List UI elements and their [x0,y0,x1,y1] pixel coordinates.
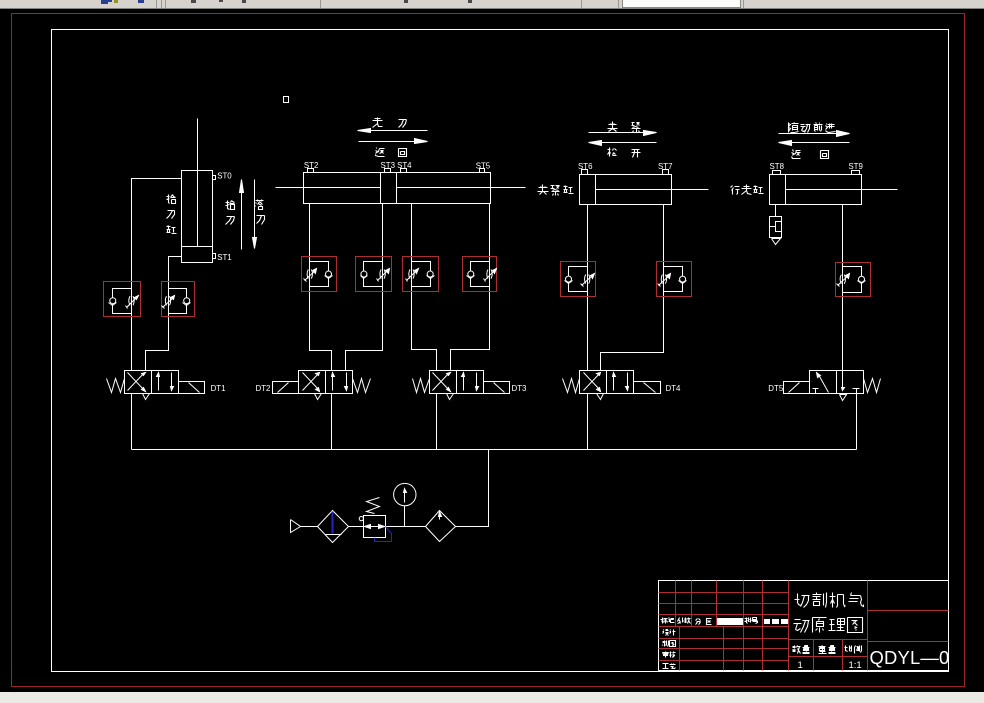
cylinder 走刀 (feed cylinder) body [304,173,491,204]
regulator vent line (blue) [375,527,392,542]
arrow 返回 (left) [781,142,850,144]
headers 数量/重量/比例 [793,646,801,654]
label 夹紧缸 [538,185,549,195]
svg-text:DT5: DT5 [768,384,784,393]
exhaust throttle/muffler block [770,217,782,238]
solenoid valve DT5 solenoid box [784,382,810,394]
limit switch marker ST9 [852,171,860,175]
wire: DT4 to manifold [587,394,589,450]
status bar sliver [0,692,984,703]
DT2 exhaust triangle [315,394,322,400]
one-way throttle valve F7 [565,267,595,292]
DT5 right square blocked port T [853,388,860,390]
solenoid valve DT4 spring [563,379,580,393]
one-way throttle valve F3 [304,262,333,287]
label 松开 [608,148,617,157]
DT2 parallel arrows [332,376,334,391]
limit switch marker ST6 [582,170,588,175]
arrow 松开 (left) [591,142,657,144]
svg-text:QDYL—0: QDYL—0 [870,647,950,668]
limit switch marker ST0 [213,176,216,180]
toolbar combo box [622,0,741,8]
svg-text:ST8: ST8 [770,162,785,171]
DT5 left square blocked port T [813,388,819,390]
svg-text:ST0: ST0 [217,172,232,181]
feed cylinder rod (right) [397,187,526,189]
travel cylinder piston [785,175,787,205]
one-way throttle valve F3 red highlight box [302,257,337,292]
filter element (blue) [332,512,334,534]
label 夹紧 [608,122,618,132]
feed cylinder piston [380,173,382,204]
DT3 crossed arrows [433,373,450,391]
title block row labels [661,618,668,624]
one-way throttle valve F9 red highlight box [836,263,871,297]
one-way throttle valve F1 [109,289,139,314]
muffler exhaust triangle [772,239,781,245]
pressure regulator box [364,516,386,538]
label 走刀 [373,118,383,128]
one-way throttle valve F1 red highlight box [104,282,141,317]
svg-text:ST6: ST6 [578,162,593,171]
arrow 落刀 (drop, down) [254,180,256,244]
label 行走缸 [731,186,740,195]
arrow 夹紧 (right) [589,132,655,134]
solenoid valve DT4 body [580,371,634,394]
limit switch marker ST1 [213,254,216,259]
title block red grid [675,581,677,627]
svg-text:ST7: ST7 [658,162,672,171]
revision dashes [765,620,770,624]
one-way throttle valve F4 [361,262,390,287]
one-way throttle valve F8 [658,267,687,292]
DT1 exhaust triangle [143,394,150,400]
lubricator (diamond with oil drip arrow) [426,511,456,542]
one-way throttle valve F5 [406,262,435,287]
small reference square [284,97,289,103]
regulator spring [367,498,380,514]
application toolbar sliver [0,0,984,9]
toolbar icon dots [191,0,196,3]
revision bar (white) [718,619,743,625]
travel cylinder rod [786,189,898,191]
title text 切割机气动原理图 [795,594,810,608]
feed cylinder rod (left) [276,187,381,189]
cylinder 行走缸 (travel cylinder) body [770,175,862,205]
wire: travel cyl left port to muffler [775,205,777,217]
DT4 parallel arrows [613,376,615,391]
limit switch marker ST4 [401,169,407,173]
wire: feed cyl port A to valve F3 then DT2 [310,204,332,371]
arrow 返回 (right) [359,141,425,143]
one-way throttle valve F6 red highlight box [463,257,497,292]
wire: clamp cyl port A to valve F7 then DT4 [587,205,589,371]
filter (diamond with separator) [318,511,349,543]
main air manifold [132,449,857,451]
toolbar icon fragment 2 (blue) [138,0,144,3]
DT1 crossed arrows [128,373,145,391]
wire: clamp cyl port B to valve F8 then DT4 [601,205,664,371]
DT1 parallel arrows [158,376,160,391]
DT5 exhaust triangle [840,395,847,401]
wire: manifold feed drop [456,450,489,527]
solenoid valve DT2 spring [353,379,371,393]
wire: DT5 to manifold [856,394,858,450]
toolbar icon fragment 1 (dark blue arrow) [101,0,108,4]
limit switch marker ST7 [663,170,669,175]
solenoid valve DT5 spring [864,379,881,393]
clamp cylinder piston [595,175,597,205]
regulator adjust knob [359,517,363,521]
wire: feed cyl port B to valve F4 then DT2 [346,204,383,371]
one-way throttle valve F5 red highlight box [403,257,439,292]
wire: DT3 to manifold [436,394,438,450]
wire: lift cylinder top port to valve F1 and DT1 [132,179,182,371]
title block outline [659,581,949,671]
arrow 随动前进 (right) [779,133,848,135]
DT4 crossed arrows [584,373,601,391]
limit switch marker ST5 [480,169,485,173]
limit switch marker ST8 [773,171,781,175]
svg-text:1: 1 [798,660,803,671]
DT1 solenoid box [179,382,205,394]
DT3 solenoid box [484,382,510,394]
label 返回 [376,148,385,157]
label 落刀 [255,200,264,210]
wire: travel cyl right port to valve F9 then DT5 [842,205,844,388]
svg-text:DT4: DT4 [666,384,682,393]
limit switch marker ST3 [385,169,391,173]
solenoid valve DT5 body [810,371,864,394]
one-way throttle valve F9 [837,267,866,293]
wire: feed cyl port C to valve F5 then DT3 [412,204,437,371]
wire: DT1 to manifold [131,394,133,450]
wire: lift cylinder bottom port to valve F2 then DT1 [146,257,182,371]
solenoid valve DT2 solenoid box [273,382,299,394]
pressure gauge [394,483,416,505]
svg-text:ST9: ST9 [848,162,863,171]
cylinder 夹紧缸 (clamp cylinder) body [580,175,672,205]
svg-text:DT3: DT3 [512,384,528,393]
svg-text:1:1: 1:1 [849,660,862,671]
flow arrowhead into DT5 [842,388,845,391]
DT3 exhaust triangle [447,394,454,400]
DT3 parallel arrows [463,376,465,391]
arrow 走刀 (left) [361,130,428,132]
DT4 solenoid box [634,382,661,394]
svg-text:ST2: ST2 [304,161,318,170]
svg-text:ST4: ST4 [397,161,412,170]
DT4 exhaust triangle [597,394,604,400]
one-way throttle valve F2 red highlight box [162,282,195,317]
one-way throttle valve F8 red highlight box [657,262,692,297]
solenoid valve DT3 body [430,371,484,394]
one-way throttle valve F7 red highlight box [561,262,596,297]
lift cylinder piston rod [197,119,199,247]
DT5 left square diagonal arrow [819,375,829,393]
label 抬刀缸 (vertical) [167,195,176,204]
clamp cylinder rod [596,189,709,191]
air supply line [301,526,318,528]
air source triangle [291,520,301,533]
toolbar grip separators [156,0,157,8]
wire: feed cyl port D to valve F6 then DT3 [451,204,490,371]
cylinder 抬刀缸 (lift cylinder) body [182,171,213,263]
solenoid valve DT2 body [299,371,353,394]
label 返回 [792,150,801,159]
toolbar icon fragment (yellow dot) [114,0,118,3]
label 抬刀 [226,201,235,210]
solenoid valve DT1 body [125,371,179,394]
solenoid valve DT1 spring [107,379,125,393]
svg-text:ST3: ST3 [381,161,396,170]
wire: DT2 to manifold [331,394,333,450]
svg-text:DT1: DT1 [211,384,226,393]
one-way throttle valve F4 red highlight box [356,257,392,292]
DT2 crossed arrows [303,373,320,391]
limit switch marker ST2 [308,169,314,173]
svg-text:ST1: ST1 [217,253,231,262]
one-way throttle valve F6 [467,262,497,287]
svg-text:ST5: ST5 [476,161,491,170]
label 随动前进 [789,123,799,133]
svg-text:DT2: DT2 [256,384,271,393]
solenoid valve DT3 spring [413,379,430,393]
lift cylinder piston divider [182,246,213,248]
one-way throttle valve F2 [162,289,191,314]
arrow 抬刀 (lift, up) [241,184,243,250]
